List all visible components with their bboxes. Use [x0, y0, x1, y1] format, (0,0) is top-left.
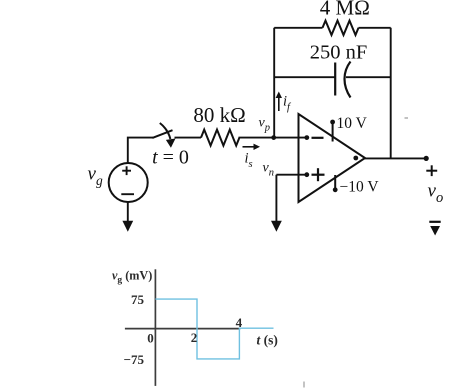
waveform vg square wave	[155, 299, 273, 359]
graph y-axis	[154, 269, 156, 386]
svg-text:80 kΩ: 80 kΩ	[193, 103, 245, 127]
capacitor 250 nF	[335, 62, 350, 98]
wire: vn to ground vertical	[275, 175, 277, 222]
op-amp noninverting input dot	[304, 172, 309, 177]
svg-text:is: is	[245, 151, 253, 171]
svg-text:vg (mV): vg (mV)	[112, 269, 152, 286]
svg-text:75: 75	[131, 292, 145, 307]
wire: inverting feedback node vertical (vp to feedback)	[273, 28, 275, 138]
op-amp plus sign	[312, 168, 325, 181]
svg-text:2: 2	[191, 330, 198, 345]
node vp junction dot	[271, 135, 276, 140]
svg-text:vp: vp	[259, 116, 270, 134]
source polarity marks	[121, 166, 134, 194]
svg-text:4 MΩ: 4 MΩ	[320, 0, 370, 20]
wire: noninverting input	[276, 174, 307, 176]
positive supply pin	[330, 120, 335, 142]
op-amp triangle	[299, 114, 366, 202]
svg-text:250 nF: 250 nF	[310, 42, 368, 64]
svg-text:−10 V: −10 V	[340, 179, 380, 196]
op-amp output dot	[353, 156, 358, 161]
wire: output	[364, 157, 426, 159]
svg-text:−75: −75	[124, 352, 145, 367]
svg-text:vn: vn	[263, 161, 274, 179]
current arrow is	[243, 144, 261, 170]
wire: capacitor branch left	[274, 76, 335, 78]
output terminal dot	[424, 156, 429, 161]
svg-text:vg: vg	[88, 164, 103, 189]
current arrow if	[276, 92, 292, 114]
svg-text:10 V: 10 V	[337, 115, 368, 132]
wire: feedback top-left horizontal	[274, 27, 322, 29]
wire: feedback top-right horizontal	[359, 27, 391, 29]
resistor 80 kOhm	[201, 130, 239, 146]
svg-text:0: 0	[147, 331, 154, 346]
op-amp inverting input dot	[304, 135, 309, 140]
output plus polarity	[426, 165, 437, 176]
wire: feedback right vertical to output	[390, 28, 392, 159]
wire: capacitor branch right	[346, 76, 391, 78]
switch t=0	[152, 123, 172, 139]
voltage source vg	[109, 163, 148, 202]
svg-text:4: 4	[236, 315, 243, 330]
wire: source bottom lead	[127, 202, 129, 222]
wire: switch to resistor	[175, 137, 202, 139]
negative supply pin	[333, 175, 338, 192]
output reference symbol	[429, 222, 440, 236]
stray scan tick	[303, 382, 305, 388]
switch arrowhead	[166, 139, 176, 148]
wire: input node to switch	[128, 138, 153, 164]
graph x-axis	[125, 328, 240, 330]
ground arrow below vn	[271, 221, 282, 232]
wire: resistor to op-amp inverting input	[239, 137, 308, 139]
svg-text:if: if	[283, 94, 292, 114]
svg-text:vo: vo	[428, 181, 444, 207]
op-amp minus sign	[312, 137, 324, 139]
svg-text:t (s): t (s)	[257, 332, 278, 347]
svg-text:t = 0: t = 0	[152, 147, 189, 169]
resistor 4 MOhm (feedback)	[323, 21, 359, 35]
ground arrow below source	[122, 221, 133, 232]
stray scan speck	[405, 117, 409, 119]
